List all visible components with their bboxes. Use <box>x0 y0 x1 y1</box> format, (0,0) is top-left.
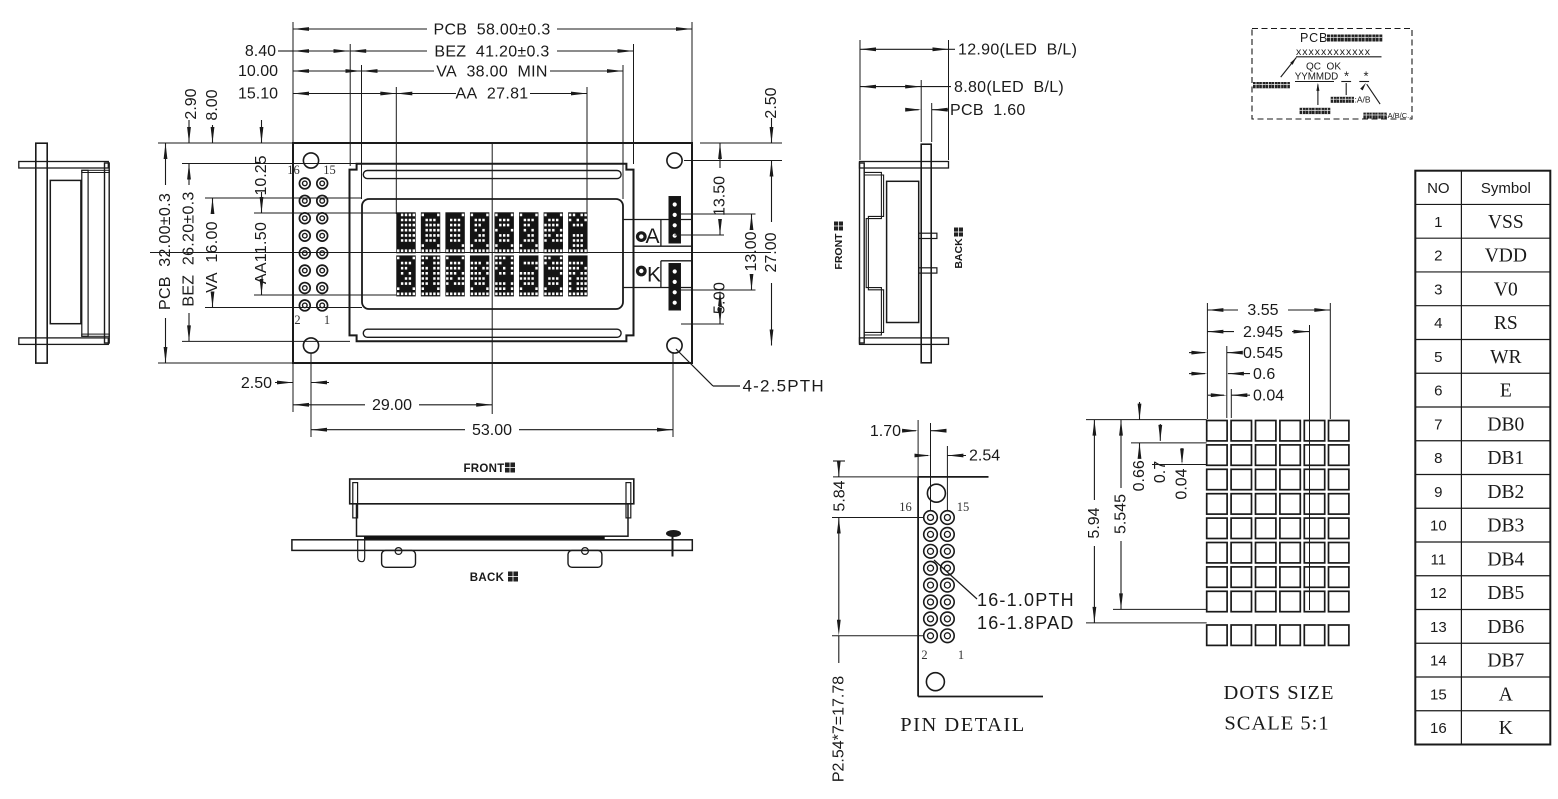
svg-text:FRONT: FRONT <box>463 463 504 475</box>
svg-text:13.50: 13.50 <box>712 176 729 216</box>
ext line PCB bottom-left <box>158 362 293 364</box>
dots ext row2-bottom <box>1152 464 1207 466</box>
svg-text:VSS: VSS <box>1488 212 1524 233</box>
dim 8.00 arrow <box>212 125 214 143</box>
LCD character cell row2 '4' <box>495 255 514 296</box>
dots ext col1-right <box>1226 346 1228 418</box>
display window (VA) <box>362 199 623 309</box>
left side view bottom tab <box>19 338 109 345</box>
right side view PCB bar <box>921 144 931 363</box>
dim AA11.50 (vertical) <box>261 291 263 296</box>
ext line VA top-left <box>205 197 362 199</box>
dots dim 3.55 <box>1207 308 1223 312</box>
LCD character cell row1 '8' <box>495 212 514 253</box>
pin detail ext row2 <box>832 635 923 637</box>
LCD character cell row1 'A' <box>568 212 587 253</box>
dim 2.50 bottom <box>275 382 293 384</box>
dim 8.40 <box>278 50 293 52</box>
leader 4-2.5PTH <box>676 349 713 386</box>
pin table grid <box>1415 171 1550 745</box>
svg-text:8.40: 8.40 <box>245 43 276 60</box>
LCD character cell row2 '5' <box>519 255 538 296</box>
back view left tab <box>353 483 358 518</box>
pin detail ext col2 <box>946 446 948 510</box>
svg-text:5.545: 5.545 <box>1113 494 1130 534</box>
ext line AA bottom-left <box>254 294 396 296</box>
svg-text:2.50: 2.50 <box>763 87 780 118</box>
svg-text:DOTS SIZE: DOTS SIZE <box>1224 682 1335 704</box>
svg-text:AA 27.81: AA 27.81 <box>456 86 529 103</box>
dim 5.00 (vertical) <box>718 290 722 306</box>
dot matrix grid 5x8 + adjacent <box>1207 421 1227 441</box>
back view bezel top plate <box>350 479 634 504</box>
pin detail 16 pads <box>924 511 938 525</box>
dots dim 2.945 <box>1207 330 1223 334</box>
right side view bottom tab <box>860 338 949 345</box>
mounting hole top-left <box>303 153 318 168</box>
mounting hole top-right <box>667 153 682 168</box>
svg-text:0.7: 0.7 <box>1152 461 1169 483</box>
ext line below hole-left <box>310 353 312 437</box>
ext line AA top-left <box>254 212 396 214</box>
svg-text:2: 2 <box>294 313 300 327</box>
ext line VA-left <box>361 65 363 199</box>
svg-text:DB1: DB1 <box>1487 448 1524 469</box>
ext line PCB face <box>920 80 922 142</box>
svg-text:3: 3 <box>1434 281 1442 298</box>
back view mounting hook left <box>382 550 416 567</box>
cjk after BACK (back view) <box>508 572 518 582</box>
label box line shift <box>1345 83 1347 95</box>
back view PCB slab <box>292 540 692 551</box>
ext line VA bottom-left <box>205 307 362 309</box>
LCD character cell row2 '6' <box>544 255 563 296</box>
dim BEZ 26.20±0.3 (vertical) <box>187 164 191 180</box>
dim 2.90 arrow <box>188 120 190 143</box>
dots dim 5.94 <box>1093 420 1097 436</box>
K cutout vertical <box>660 261 662 288</box>
svg-text:BACK: BACK <box>470 572 505 584</box>
left side view LCD glass <box>50 180 81 323</box>
svg-text:PCB: PCB <box>1300 31 1328 45</box>
svg-text:14: 14 <box>1430 653 1447 670</box>
dots dim 0.66 <box>1139 402 1141 420</box>
ext line PCB top-right <box>700 142 782 144</box>
svg-text:WR: WR <box>1490 347 1521 368</box>
bezel bottom slot <box>363 329 621 337</box>
ext line AA-right <box>586 87 588 214</box>
pin detail ext row16 <box>832 517 923 519</box>
back view right tab <box>626 483 631 518</box>
svg-text:K: K <box>1499 718 1513 739</box>
svg-text:29.00: 29.00 <box>372 397 412 414</box>
svg-text:VA 38.00 MIN: VA 38.00 MIN <box>436 64 548 81</box>
svg-text:V0: V0 <box>1494 279 1518 300</box>
LCD character cell row1 '0' <box>519 212 538 253</box>
dim 12.90 LED B/L <box>860 47 876 51</box>
pin detail ext col-left <box>917 420 919 477</box>
ext line LED left <box>859 40 861 160</box>
dim 15.10 <box>293 92 309 96</box>
ext line LED right <box>948 40 950 160</box>
svg-text:K: K <box>647 264 661 287</box>
label box underlines <box>1295 81 1334 83</box>
ext line 13.00 bottom <box>681 289 756 291</box>
ext line below PCB-left <box>292 364 294 412</box>
pin detail dim 1.70 <box>902 430 916 432</box>
ext line BEZ-left <box>349 44 351 166</box>
ext line BEZ bottom-left <box>182 340 350 342</box>
pin detail dim 2.54 <box>916 455 928 457</box>
svg-text:2.90: 2.90 <box>183 88 200 119</box>
svg-text:7: 7 <box>1434 416 1442 433</box>
label box cjk customer-model <box>1253 82 1259 88</box>
svg-text:2.945: 2.945 <box>1243 324 1283 341</box>
label box cjk title <box>1327 35 1334 42</box>
ext line below hole-right <box>672 352 674 437</box>
label box leader line-sel <box>1367 84 1380 104</box>
svg-text:DB2: DB2 <box>1487 482 1524 503</box>
16 through-hole pads (front view) <box>299 178 310 189</box>
svg-text:PIN DETAIL: PIN DETAIL <box>900 714 1026 736</box>
svg-text:BEZ 26.20±0.3: BEZ 26.20±0.3 <box>181 191 198 306</box>
LCD character cell row1 'L' <box>396 212 415 253</box>
left side view inner bottom arm <box>82 334 109 336</box>
ext line PCB-right <box>691 22 693 143</box>
ext line PCB back <box>931 103 933 142</box>
wire anode A <box>623 219 692 221</box>
pin detail PCB corner <box>917 477 919 697</box>
svg-text:VA 16.00: VA 16.00 <box>204 221 221 293</box>
pin detail hole bottom <box>926 673 944 691</box>
svg-text:PCB 58.00±0.3: PCB 58.00±0.3 <box>433 22 550 39</box>
right side view top tab <box>860 162 949 169</box>
svg-text:1.70: 1.70 <box>870 423 901 440</box>
left side view PCB bar <box>36 143 47 363</box>
svg-text:DB5: DB5 <box>1487 583 1524 604</box>
LCD character cell row1 'C' <box>421 212 440 253</box>
svg-text:3.55: 3.55 <box>1247 302 1278 319</box>
vertical centerline front view <box>491 143 493 414</box>
LCD character cell row2 '0' <box>396 255 415 296</box>
dim 13.00 (vertical) <box>750 214 754 230</box>
horizontal centerline front view <box>150 252 771 254</box>
svg-text:9: 9 <box>1434 484 1442 501</box>
svg-text:1: 1 <box>958 648 964 662</box>
svg-text:SCALE 5:1: SCALE 5:1 <box>1224 713 1329 735</box>
dim AA 27.81 <box>396 92 412 96</box>
backlight connector strip A <box>669 197 681 244</box>
svg-text:0.6: 0.6 <box>1253 366 1275 383</box>
mounting hole bottom-right <box>667 338 682 353</box>
mounting hole bottom-left <box>303 338 318 353</box>
dots ext row8-bottom <box>1113 608 1207 610</box>
svg-text:E: E <box>1500 381 1512 402</box>
dots dim 0.6 <box>1189 373 1205 375</box>
left side view inner top arm <box>82 170 109 172</box>
svg-text:DB4: DB4 <box>1487 549 1524 570</box>
LCD character cell row1 '2' <box>544 212 563 253</box>
right side view backlight pin A <box>919 233 937 238</box>
left side view top tab <box>19 162 109 169</box>
label box cjk production-date <box>1300 108 1306 114</box>
svg-text:xxxxxxxxxxxx: xxxxxxxxxxxx <box>1296 46 1371 58</box>
cjk after FRONT (right side view) <box>834 222 843 231</box>
svg-text:6: 6 <box>1434 383 1442 400</box>
svg-text:16: 16 <box>899 500 912 514</box>
svg-text:5.84: 5.84 <box>831 480 848 511</box>
dim 53.00 <box>311 428 327 432</box>
svg-text:2: 2 <box>1434 248 1442 265</box>
svg-text:8.80(LED B/L): 8.80(LED B/L) <box>954 79 1064 96</box>
svg-text:10: 10 <box>1430 518 1447 535</box>
back view dark strip <box>364 536 605 540</box>
left side view inner bar <box>82 170 88 336</box>
svg-text:16: 16 <box>1430 720 1447 737</box>
right side view holder profile <box>865 172 882 335</box>
pin detail hole top <box>927 484 945 502</box>
right side view bezel wall <box>860 163 865 343</box>
svg-text:16-1.0PTH: 16-1.0PTH <box>977 590 1075 610</box>
dim VA 38.00 MIN <box>362 69 378 73</box>
svg-text:15: 15 <box>1430 686 1447 703</box>
label box cjk shift A/B <box>1331 97 1337 103</box>
LCD character cell row2 '1' <box>421 255 440 296</box>
svg-text:AA11.50: AA11.50 <box>253 222 270 284</box>
dots ext grid-top <box>1086 419 1207 421</box>
back view body <box>357 504 629 536</box>
svg-text:4: 4 <box>1434 315 1442 332</box>
K cutout top line <box>661 260 692 262</box>
dim PCB 58.00±0.3 <box>293 27 309 31</box>
svg-text::A/B/C..: :A/B/C.. <box>1386 111 1412 120</box>
LCD character cell row2 '7' <box>568 255 587 296</box>
svg-text:RS: RS <box>1494 313 1518 334</box>
right side view LCD glass <box>887 181 919 322</box>
ext line BEZ-right <box>633 44 635 164</box>
pin detail ext top edge <box>833 476 918 478</box>
svg-text:2.50: 2.50 <box>241 375 272 392</box>
pin detail dim 5.84 <box>833 460 845 462</box>
ext line 13.00 top <box>681 213 756 215</box>
svg-text:DB3: DB3 <box>1487 516 1524 537</box>
backlight connector strip K <box>669 264 681 311</box>
dots ext col2-left <box>1230 389 1232 418</box>
pin detail leader PTH <box>934 560 977 599</box>
back view mounting hook right <box>568 550 602 567</box>
svg-text:0.04: 0.04 <box>1174 468 1191 499</box>
pin detail dim 17.78 <box>837 518 841 534</box>
svg-text:10.00: 10.00 <box>238 63 278 80</box>
LCD character cell row2 '2' <box>445 255 464 296</box>
svg-text:BEZ 41.20±0.3: BEZ 41.20±0.3 <box>434 44 549 61</box>
A anode pad <box>636 232 646 242</box>
PCB board outline (front view) <box>293 143 692 363</box>
ext line AA-left <box>395 87 397 214</box>
dim PCB 1.60 <box>906 109 919 111</box>
dots dim 0.04 left <box>1181 448 1183 462</box>
svg-text:53.00: 53.00 <box>472 422 512 439</box>
svg-text:VDD: VDD <box>1485 246 1527 267</box>
svg-text:2: 2 <box>921 648 927 662</box>
LCD character cell row1 '0' <box>470 212 489 253</box>
cjk after BACK (right side view) <box>954 228 963 237</box>
svg-text:15: 15 <box>957 500 970 514</box>
svg-text:16: 16 <box>287 163 300 177</box>
svg-text:12: 12 <box>1430 585 1447 602</box>
A cutout bottom line <box>634 245 692 247</box>
dots dim 0.545 <box>1189 352 1205 354</box>
left side view bezel wall <box>105 163 110 343</box>
bezel top slot <box>363 171 621 179</box>
ext line PCB-left <box>292 22 294 143</box>
label box line under x <box>1296 56 1382 58</box>
bezel frame outline <box>350 164 634 341</box>
dim 10.25 arrow <box>261 120 263 143</box>
label box cjk line A/B/C <box>1363 113 1369 119</box>
dots dim 5.545 <box>1119 420 1123 436</box>
svg-text:PCB 1.60: PCB 1.60 <box>950 102 1026 119</box>
back view LED pin <box>672 532 674 557</box>
svg-text:1: 1 <box>1434 214 1442 231</box>
svg-text:Symbol: Symbol <box>1481 180 1531 197</box>
dim 8.80 LED B/L <box>860 85 876 89</box>
svg-text:FRONT: FRONT <box>833 233 845 270</box>
cjk after FRONT (back view) <box>505 463 515 473</box>
ext line PCB top-left <box>158 142 293 144</box>
svg-text:0.04: 0.04 <box>1253 388 1284 405</box>
dots ext row1-bottom <box>1131 442 1207 444</box>
dots dim 0.7 <box>1159 424 1161 441</box>
svg-text:0.545: 0.545 <box>1243 345 1283 362</box>
ext line VA-right <box>622 65 624 199</box>
svg-text:PCB 32.00±0.3: PCB 32.00±0.3 <box>157 193 174 310</box>
K cathode pad <box>636 266 646 276</box>
svg-text:NO: NO <box>1427 180 1450 197</box>
svg-text:4-2.5PTH: 4-2.5PTH <box>743 377 825 396</box>
svg-text:15.10: 15.10 <box>238 86 278 103</box>
svg-text:16-1.8PAD: 16-1.8PAD <box>977 613 1075 633</box>
svg-text:27.00: 27.00 <box>763 232 780 272</box>
label box dashed border <box>1252 29 1412 120</box>
svg-text:15: 15 <box>323 163 336 177</box>
right side view backlight pin K <box>919 268 937 273</box>
dim 2.50 top-right <box>771 118 773 143</box>
dim BEZ 41.20±0.3 <box>350 49 366 53</box>
svg-text:DB7: DB7 <box>1487 651 1524 672</box>
svg-text:A: A <box>1499 684 1513 705</box>
pin detail ext col1 <box>930 423 932 510</box>
label box arrow date <box>1317 85 1319 106</box>
dots ext col1-left <box>1206 303 1208 419</box>
svg-text:10.25: 10.25 <box>253 155 270 195</box>
svg-text:1: 1 <box>324 313 330 327</box>
dim 27.00 (vertical) <box>770 161 774 177</box>
dots ext 2.945-right <box>1309 325 1311 610</box>
A cutout vertical <box>660 220 662 247</box>
svg-text::A/B: :A/B <box>1355 95 1371 105</box>
dim 29.00 <box>293 403 309 407</box>
svg-text:2.54: 2.54 <box>969 448 1000 465</box>
ext line 13.50 bottom <box>675 234 725 236</box>
label box leader customer <box>1281 58 1297 78</box>
svg-text:P2.54*7=17.78: P2.54*7=17.78 <box>830 676 847 782</box>
svg-text:DB6: DB6 <box>1487 617 1524 638</box>
svg-text:DB0: DB0 <box>1487 414 1524 435</box>
wire cathode K <box>623 287 692 289</box>
ext line hole top-right <box>684 160 782 162</box>
ext line BEZ top-left <box>182 163 356 165</box>
svg-text:8.00: 8.00 <box>204 89 221 120</box>
dim 13.50 (vertical) <box>718 143 722 159</box>
svg-text:12.90(LED B/L): 12.90(LED B/L) <box>958 42 1077 59</box>
svg-text:5.00: 5.00 <box>712 282 729 314</box>
LCD character cell row1 'D' <box>445 212 464 253</box>
ext line 5.00 bottom <box>681 323 724 325</box>
svg-text:13.00: 13.00 <box>743 231 760 271</box>
dots ext bottomrow-top <box>1086 622 1207 624</box>
svg-text:YYMMDD: YYMMDD <box>1295 72 1339 83</box>
dim PCB 32.00±0.3 (vertical) <box>164 143 168 159</box>
back view left hook <box>358 541 365 562</box>
svg-text:8: 8 <box>1434 450 1442 467</box>
dots ext col6-left <box>1329 303 1331 419</box>
svg-text:13: 13 <box>1430 619 1447 636</box>
svg-text:BACK: BACK <box>953 238 965 269</box>
svg-text:5: 5 <box>1434 349 1442 366</box>
svg-text:5.94: 5.94 <box>1086 507 1103 538</box>
dim 10.00 <box>293 69 309 73</box>
svg-text:11: 11 <box>1431 551 1447 568</box>
svg-text:0.66: 0.66 <box>1131 460 1148 491</box>
dim VA 16.00 (vertical) <box>211 198 215 214</box>
LCD character cell row2 '3' <box>470 255 489 296</box>
svg-text:A: A <box>645 225 659 248</box>
dots dim 0.04 <box>1208 394 1224 396</box>
